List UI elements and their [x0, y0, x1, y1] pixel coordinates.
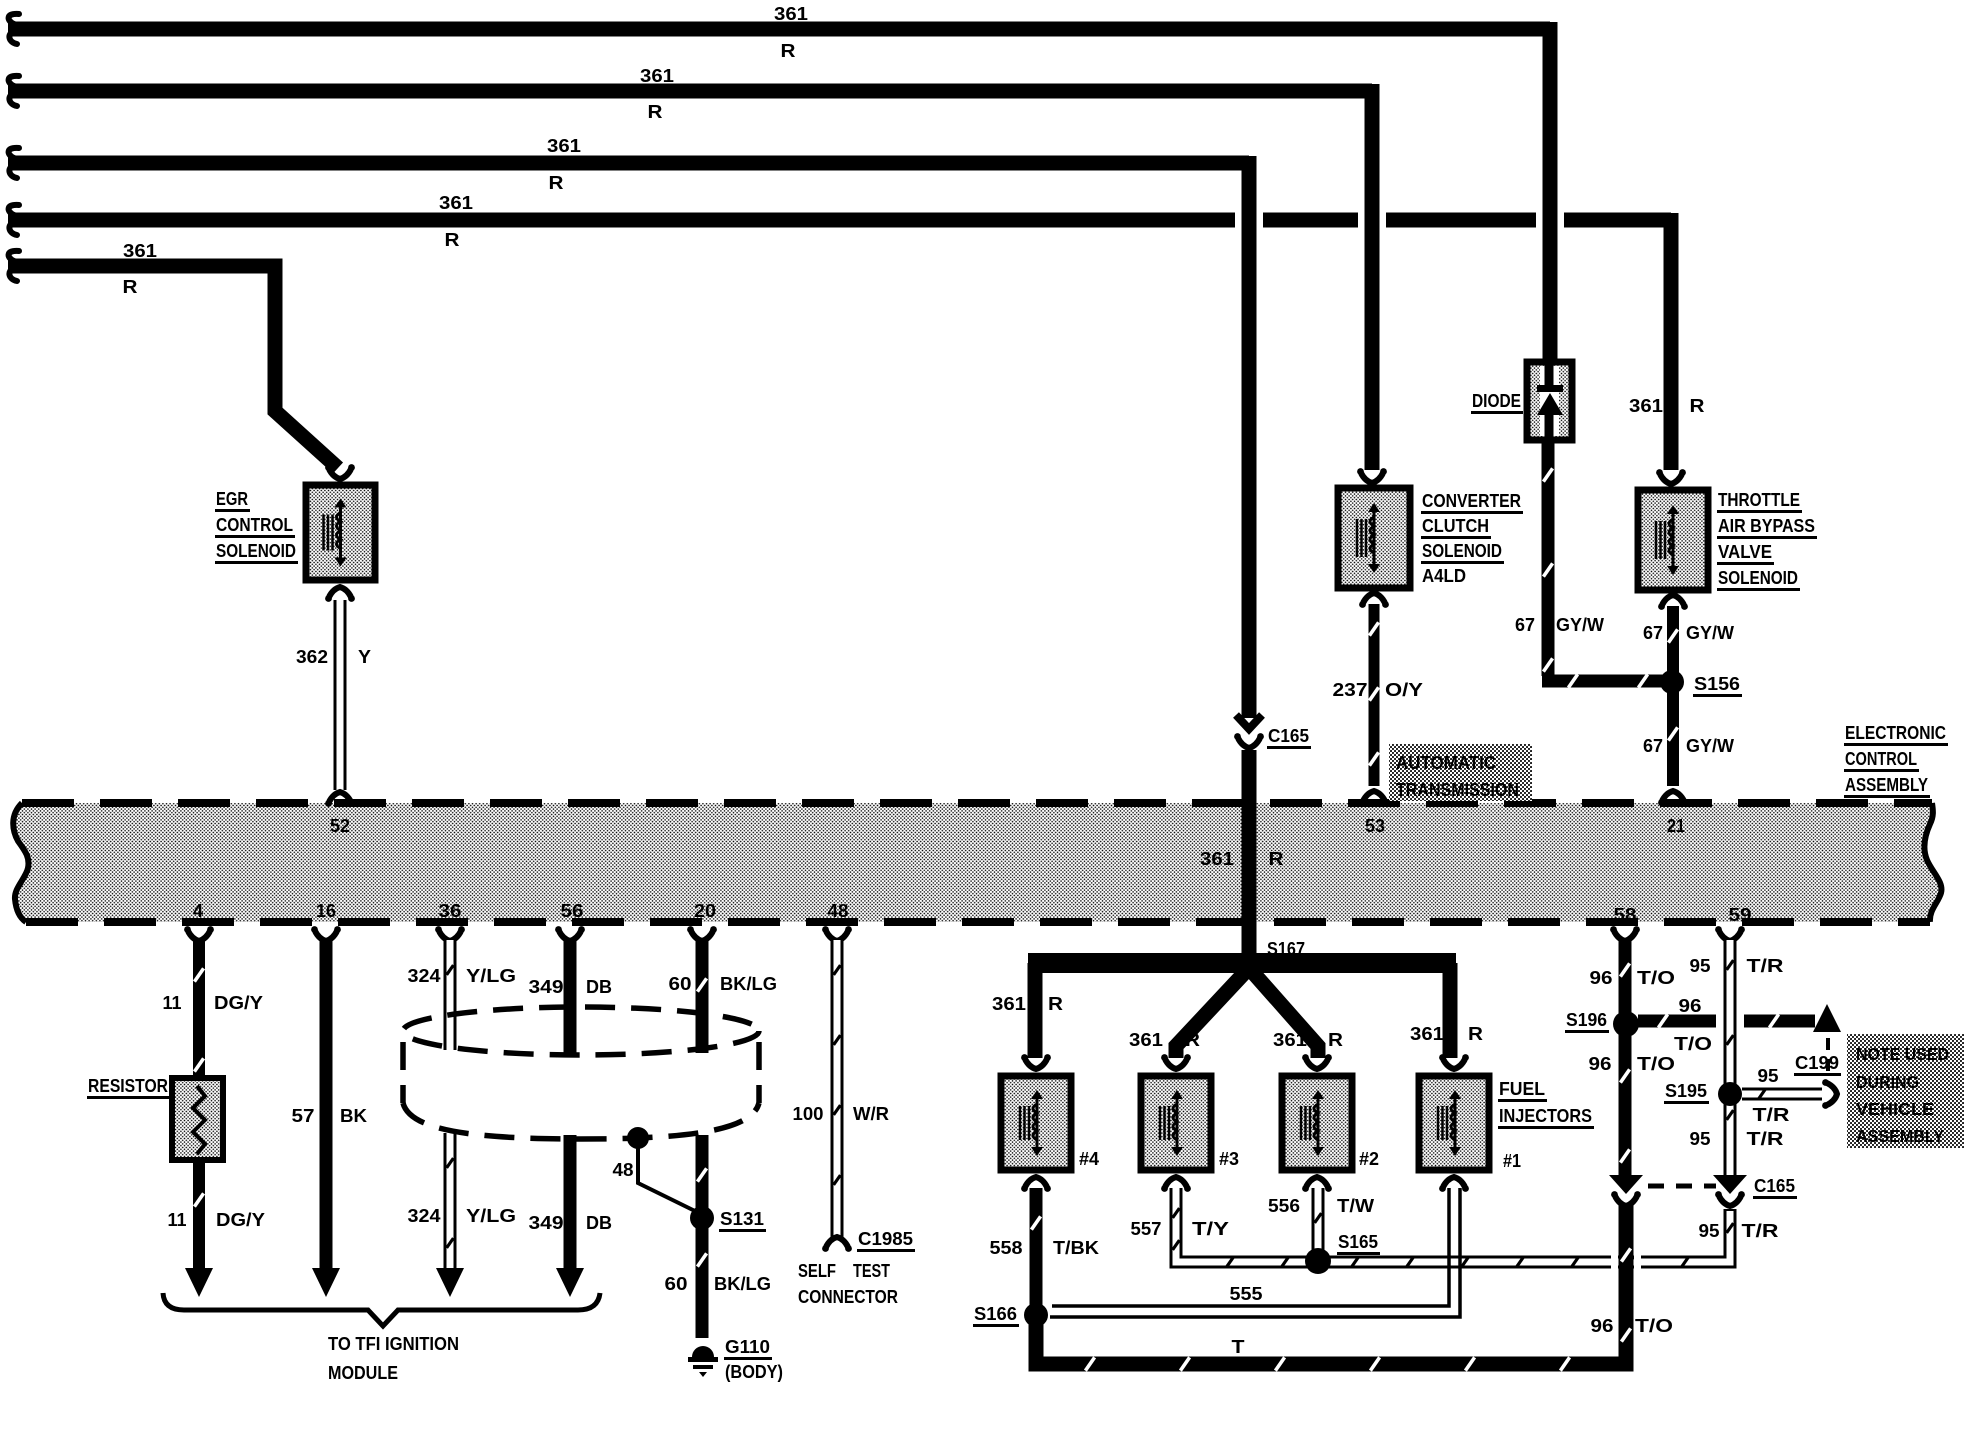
svg-text:R: R	[549, 172, 564, 193]
svg-text:67: 67	[1515, 614, 1535, 635]
svg-text:R: R	[123, 276, 138, 297]
svg-text:349: 349	[529, 1212, 564, 1233]
svg-text:S165: S165	[1338, 1231, 1378, 1252]
svg-text:11: 11	[163, 992, 182, 1013]
svg-text:#4: #4	[1079, 1148, 1100, 1169]
svg-text:BK/LG: BK/LG	[720, 973, 777, 994]
svg-text:DB: DB	[586, 976, 612, 997]
svg-text:16: 16	[316, 900, 336, 921]
svg-text:S195: S195	[1665, 1080, 1707, 1101]
svg-text:DG/Y: DG/Y	[216, 1209, 266, 1230]
svg-text:W/R: W/R	[853, 1103, 889, 1124]
svg-text:GY/W: GY/W	[1686, 622, 1735, 643]
svg-text:R: R	[1269, 848, 1284, 869]
svg-text:#3: #3	[1219, 1148, 1239, 1169]
svg-text:TRANSMISSION: TRANSMISSION	[1396, 780, 1519, 800]
svg-text:CONTROL: CONTROL	[216, 514, 293, 535]
svg-text:T/O: T/O	[1635, 1315, 1673, 1336]
svg-text:361: 361	[547, 135, 581, 156]
svg-text:R: R	[781, 40, 796, 61]
svg-text:SELF: SELF	[798, 1260, 836, 1281]
svg-text:MODULE: MODULE	[328, 1362, 398, 1383]
svg-text:100: 100	[793, 1103, 824, 1124]
svg-text:R: R	[1468, 1023, 1483, 1044]
svg-text:BK: BK	[340, 1105, 368, 1126]
svg-text:557: 557	[1131, 1218, 1162, 1239]
svg-text:ASSEMBLY: ASSEMBLY	[1856, 1126, 1944, 1146]
svg-text:DURING: DURING	[1856, 1072, 1919, 1092]
svg-text:S196: S196	[1566, 1009, 1607, 1030]
svg-text:#1: #1	[1503, 1150, 1521, 1171]
svg-text:C199: C199	[1795, 1052, 1839, 1073]
svg-text:95: 95	[1758, 1065, 1779, 1086]
svg-text:S167: S167	[1267, 938, 1305, 959]
svg-text:96: 96	[1589, 1053, 1612, 1074]
svg-text:96: 96	[1590, 967, 1613, 988]
svg-text:R: R	[1048, 993, 1063, 1014]
svg-text:324: 324	[408, 1205, 442, 1226]
svg-text:11: 11	[168, 1209, 187, 1230]
svg-text:DIODE: DIODE	[1472, 390, 1521, 411]
svg-text:A4LD: A4LD	[1422, 565, 1466, 586]
svg-text:BK/LG: BK/LG	[714, 1273, 771, 1294]
svg-text:C1985: C1985	[858, 1228, 913, 1249]
svg-text:95: 95	[1699, 1220, 1720, 1241]
svg-text:555: 555	[1230, 1283, 1263, 1304]
svg-text:52: 52	[330, 815, 350, 836]
svg-text:36: 36	[439, 900, 462, 921]
svg-text:60: 60	[669, 973, 692, 994]
svg-text:Y/LG: Y/LG	[466, 965, 516, 986]
svg-text:R: R	[1185, 1029, 1200, 1050]
svg-text:#2: #2	[1359, 1148, 1379, 1169]
svg-text:58: 58	[1614, 904, 1637, 925]
svg-text:T/O: T/O	[1637, 1053, 1675, 1074]
svg-text:361: 361	[1410, 1023, 1444, 1044]
svg-text:THROTTLE: THROTTLE	[1718, 489, 1800, 510]
svg-text:T/BK: T/BK	[1053, 1237, 1100, 1258]
svg-text:O/Y: O/Y	[1385, 679, 1424, 700]
svg-text:361: 361	[1273, 1029, 1307, 1050]
svg-text:S131: S131	[720, 1208, 764, 1229]
svg-text:C165: C165	[1268, 725, 1309, 746]
svg-text:T/R: T/R	[1747, 1128, 1784, 1149]
svg-text:CONTROL: CONTROL	[1845, 748, 1917, 769]
svg-text:53: 53	[1365, 815, 1385, 836]
svg-text:95: 95	[1690, 1128, 1711, 1149]
svg-text:96: 96	[1591, 1315, 1614, 1336]
svg-text:60: 60	[665, 1273, 688, 1294]
svg-text:349: 349	[529, 976, 564, 997]
svg-text:56: 56	[561, 900, 584, 921]
svg-text:TEST: TEST	[853, 1260, 891, 1281]
svg-text:VALVE: VALVE	[1718, 541, 1772, 562]
svg-text:SOLENOID: SOLENOID	[1718, 567, 1798, 588]
svg-text:S156: S156	[1694, 673, 1740, 694]
svg-text:Y/LG: Y/LG	[466, 1205, 516, 1226]
svg-text:GY/W: GY/W	[1686, 735, 1735, 756]
svg-text:FUEL: FUEL	[1499, 1078, 1545, 1099]
svg-text:556: 556	[1268, 1195, 1300, 1216]
svg-text:R: R	[1328, 1029, 1343, 1050]
svg-text:361: 361	[439, 192, 473, 213]
svg-text:INJECTORS: INJECTORS	[1499, 1105, 1592, 1126]
svg-text:S166: S166	[974, 1303, 1017, 1324]
svg-text:T/O: T/O	[1674, 1033, 1712, 1054]
svg-text:T/R: T/R	[1742, 1220, 1779, 1241]
svg-text:ELECTRONIC: ELECTRONIC	[1845, 722, 1946, 743]
svg-text:T: T	[1232, 1336, 1246, 1357]
svg-text:48: 48	[828, 900, 849, 921]
svg-text:G110: G110	[725, 1336, 770, 1357]
svg-text:362: 362	[296, 646, 328, 667]
svg-text:EGR: EGR	[216, 488, 248, 509]
svg-text:4: 4	[193, 900, 204, 921]
svg-text:95: 95	[1690, 955, 1711, 976]
svg-text:(BODY): (BODY)	[725, 1361, 783, 1382]
svg-text:SOLENOID: SOLENOID	[1422, 540, 1502, 561]
svg-text:237: 237	[1333, 679, 1368, 700]
svg-text:361: 361	[1200, 848, 1234, 869]
svg-text:59: 59	[1729, 904, 1752, 925]
svg-text:Y: Y	[358, 646, 372, 667]
svg-text:T/R: T/R	[1747, 955, 1784, 976]
svg-text:T/R: T/R	[1753, 1104, 1790, 1125]
svg-text:CONNECTOR: CONNECTOR	[798, 1286, 898, 1307]
svg-text:57: 57	[292, 1105, 315, 1126]
svg-text:NOTE USED: NOTE USED	[1856, 1044, 1949, 1064]
svg-text:67: 67	[1643, 735, 1663, 756]
svg-text:DG/Y: DG/Y	[214, 992, 264, 1013]
svg-text:CLUTCH: CLUTCH	[1422, 515, 1489, 536]
svg-text:361: 361	[1629, 395, 1663, 416]
svg-text:361: 361	[123, 240, 157, 261]
svg-text:AUTOMATIC: AUTOMATIC	[1396, 753, 1496, 773]
svg-text:96: 96	[1679, 995, 1702, 1016]
svg-text:361: 361	[992, 993, 1026, 1014]
svg-text:558: 558	[990, 1237, 1023, 1258]
svg-text:C165: C165	[1754, 1175, 1795, 1196]
svg-text:CONVERTER: CONVERTER	[1422, 490, 1521, 511]
svg-text:TO TFI IGNITION: TO TFI IGNITION	[328, 1333, 459, 1354]
svg-text:361: 361	[774, 3, 808, 24]
svg-text:R: R	[1690, 395, 1705, 416]
svg-text:VEHICLE: VEHICLE	[1856, 1099, 1934, 1119]
svg-text:324: 324	[408, 965, 442, 986]
svg-text:21: 21	[1667, 815, 1685, 836]
svg-text:GY/W: GY/W	[1556, 614, 1605, 635]
svg-text:R: R	[648, 101, 663, 122]
svg-text:ASSEMBLY: ASSEMBLY	[1845, 774, 1929, 795]
svg-text:361: 361	[640, 65, 674, 86]
svg-text:R: R	[445, 229, 460, 250]
svg-text:T/W: T/W	[1337, 1195, 1375, 1216]
svg-text:AIR BYPASS: AIR BYPASS	[1718, 515, 1815, 536]
svg-text:RESISTOR: RESISTOR	[88, 1075, 168, 1096]
svg-text:361: 361	[1129, 1029, 1163, 1050]
svg-text:20: 20	[694, 900, 716, 921]
svg-text:67: 67	[1643, 622, 1663, 643]
svg-text:DB: DB	[586, 1212, 612, 1233]
svg-text:SOLENOID: SOLENOID	[216, 540, 296, 561]
svg-text:T/Y: T/Y	[1192, 1218, 1230, 1239]
svg-text:T/O: T/O	[1637, 967, 1675, 988]
svg-text:48: 48	[613, 1159, 634, 1180]
